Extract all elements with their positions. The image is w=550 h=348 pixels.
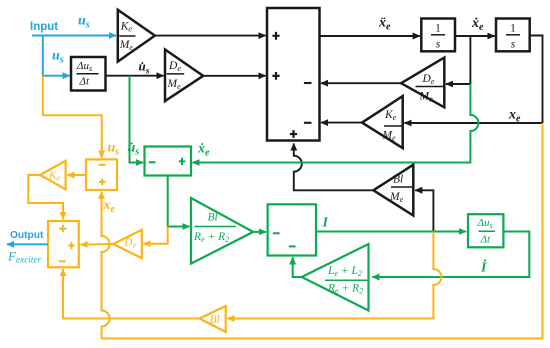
summing block S3 (green current summer) <box>268 204 316 255</box>
svg-text:us: us <box>78 14 90 31</box>
gain block De (yellow) <box>113 230 142 258</box>
summing block S1 (force summer) <box>267 8 320 141</box>
block du_s/dt (green derivative) <box>468 214 503 247</box>
svg-text:I: I <box>322 216 329 231</box>
wire output F (cyan) <box>7 243 48 245</box>
wire I output (green) <box>316 231 466 233</box>
block du_s/dt (black derivative) <box>71 57 106 91</box>
summing block S2 (green voltage summer) <box>145 147 192 176</box>
gain block Bl (yellow) <box>200 306 226 332</box>
svg-text:Ke: Ke <box>120 21 133 34</box>
svg-text:Δus: Δus <box>477 217 493 230</box>
svg-text:Ke: Ke <box>384 109 397 122</box>
svg-text:xe: xe <box>508 108 521 125</box>
wire x_e up into S4 with hops (yellow) <box>102 192 110 339</box>
summing block S4 (yellow u_s - x_e) <box>86 159 117 190</box>
svg-text:s: s <box>511 39 516 51</box>
svg-text:De: De <box>168 60 181 73</box>
gain block (Le+L2)/(Re+R2) (green) <box>302 244 369 311</box>
gain block De/Me (forward) <box>165 50 203 102</box>
svg-text:ẋe: ẋe <box>471 16 484 33</box>
wire De/Me out to summer (black) <box>203 75 265 77</box>
svg-text:u̇s: u̇s <box>128 141 140 158</box>
svg-text:Ke: Ke <box>48 170 60 183</box>
wire L-gain out up to S3 (green) <box>293 257 302 277</box>
svg-text:1: 1 <box>510 23 516 35</box>
wire S4 out to Ke (yellow) <box>67 174 86 176</box>
wire I tap down to Bl with hop (yellow) <box>227 232 441 319</box>
integrator 1/s #1 <box>421 19 455 52</box>
wire green u_s-dot branch (green) <box>130 76 144 163</box>
svg-text:Bl: Bl <box>210 314 220 326</box>
svg-text:u̇s: u̇s <box>139 58 150 76</box>
wire x_e-dd to integrator (black) <box>320 35 420 37</box>
gain block Ke (yellow) <box>40 161 66 190</box>
svg-text:xe: xe <box>103 198 116 215</box>
svg-text:Me: Me <box>419 91 434 104</box>
svg-text:Output: Output <box>10 230 44 241</box>
svg-text:Bl: Bl <box>393 174 403 186</box>
svg-text:Re + R2: Re + R2 <box>193 231 229 244</box>
wire u_s yellow branch to S4 <box>43 76 102 158</box>
gain block De/Me #2 (feedback) <box>401 58 444 108</box>
svg-text:ẍe: ẍe <box>378 16 391 33</box>
summing block S5 (output summer, yellow) <box>48 221 79 267</box>
wire x_e bottom feedback (yellow) <box>102 123 543 339</box>
svg-text:Re + R2: Re + R2 <box>327 282 363 295</box>
wire Bl/(Re+R2) out (green) <box>253 231 266 233</box>
svg-text:ẋe: ẋe <box>197 142 210 159</box>
wire De branch from green node (yellow) <box>144 227 168 244</box>
svg-text:Δus: Δus <box>76 60 92 73</box>
svg-text:İ: İ <box>480 259 487 276</box>
svg-text:De: De <box>422 73 435 86</box>
wire De/Me#2 out to summer (black) <box>321 82 401 84</box>
svg-text:Le + L2: Le + L2 <box>327 265 362 278</box>
wire u_s branch down (cyan) <box>42 36 44 76</box>
svg-text:Me: Me <box>389 191 404 204</box>
svg-text:Me: Me <box>119 39 134 52</box>
wire De out to S5 (yellow) <box>81 243 114 246</box>
wire Bl out to S5 (yellow) <box>63 269 200 319</box>
wire Ke/Me#2 out to summer (black) <box>321 122 362 124</box>
svg-text:Me: Me <box>167 78 182 91</box>
wire Ke out to S5 (yellow) <box>28 175 63 219</box>
wire x_e-dot between integrators (black) <box>455 35 495 37</box>
wire u_s-dot to De/Me (black) <box>106 75 164 77</box>
svg-text:De: De <box>124 237 137 250</box>
svg-text:Δt: Δt <box>480 233 491 245</box>
svg-text:Bl: Bl <box>208 212 218 224</box>
svg-text:Me: Me <box>382 130 397 143</box>
integrator 1/s #2 <box>496 19 530 52</box>
wire current tap to Bl/Me (black) <box>415 190 433 230</box>
wire x_e feedback to Ke/Me (black) <box>405 122 543 124</box>
svg-text:s: s <box>436 39 441 51</box>
gain block Ke/Me (top forward) <box>118 10 155 62</box>
wire x_e-dot long feedback with hop (green) <box>193 84 479 163</box>
svg-text:us: us <box>52 49 64 66</box>
svg-text:1: 1 <box>435 23 441 35</box>
svg-text:us: us <box>108 141 120 158</box>
gain block Ke/Me #2 (feedback) <box>362 96 403 148</box>
wire u_s input (cyan) <box>32 35 116 37</box>
wire Ke/Me out to summer (black) <box>155 35 266 37</box>
wire u_s to du/dt block (cyan) <box>43 75 70 77</box>
wire x_e-dot into De/Me #2 (black) <box>446 83 470 85</box>
svg-text:Δt: Δt <box>79 76 90 88</box>
wire Bl/Me out with hop over green (black) <box>294 144 374 191</box>
wire I-dot feedback (green) <box>372 232 529 278</box>
wire x_e-dot tap down (black) <box>469 36 471 84</box>
gain block Bl/(Re+R2) (green) <box>191 198 253 264</box>
wire S2 out down to Bl/(Re+R2) (green) <box>168 176 190 227</box>
svg-text:Fexciter: Fexciter <box>7 249 42 266</box>
svg-text:Input: Input <box>30 21 58 33</box>
gain block Bl/Me (feedback) <box>373 165 413 216</box>
wire x_e output corner (black) <box>530 36 543 124</box>
